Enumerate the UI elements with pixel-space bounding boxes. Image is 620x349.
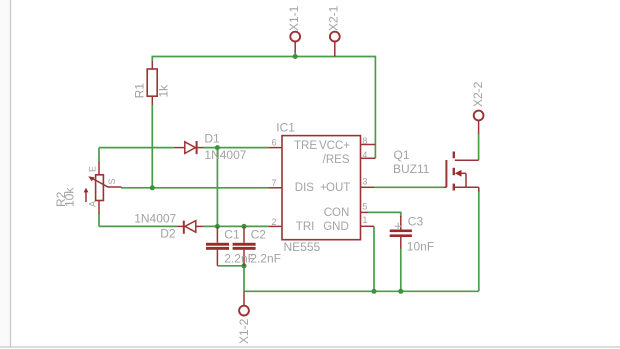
svg-text:1k: 1k xyxy=(157,84,171,98)
svg-text:A: A xyxy=(87,201,97,207)
svg-text:5: 5 xyxy=(362,201,367,211)
svg-text:8: 8 xyxy=(362,136,367,146)
svg-text:1N4007: 1N4007 xyxy=(134,212,176,226)
svg-text:NE555: NE555 xyxy=(284,240,321,254)
svg-text:/RES: /RES xyxy=(323,154,350,166)
svg-text:CON: CON xyxy=(324,207,350,219)
svg-text:E: E xyxy=(87,166,97,172)
svg-text:6: 6 xyxy=(271,137,276,147)
svg-text:R1: R1 xyxy=(133,83,147,99)
svg-text:D2: D2 xyxy=(160,226,176,240)
svg-text:GND: GND xyxy=(323,221,349,233)
svg-text:DIS: DIS xyxy=(295,182,315,194)
svg-text:2.2nF: 2.2nF xyxy=(250,251,281,265)
svg-text:C2: C2 xyxy=(251,227,267,241)
svg-text:1: 1 xyxy=(362,215,367,225)
svg-text:X2-2: X2-2 xyxy=(471,81,485,107)
svg-text:X1-1: X1-1 xyxy=(287,5,301,31)
svg-text:X2-1: X2-1 xyxy=(327,5,341,31)
svg-text:C3: C3 xyxy=(408,214,424,228)
svg-text:3: 3 xyxy=(362,176,367,186)
svg-text:7: 7 xyxy=(271,178,276,188)
svg-text:Q1: Q1 xyxy=(394,148,410,162)
svg-text:X1-2: X1-2 xyxy=(237,318,251,344)
svg-text:BUZ11: BUZ11 xyxy=(393,162,430,176)
svg-text:10k: 10k xyxy=(62,187,76,207)
svg-text:10nF: 10nF xyxy=(407,240,434,254)
svg-text:2: 2 xyxy=(271,217,276,227)
svg-text:1N4007: 1N4007 xyxy=(204,148,246,162)
svg-text:OUT: OUT xyxy=(326,182,350,194)
svg-text:S: S xyxy=(107,178,117,184)
svg-text:4: 4 xyxy=(362,150,367,160)
svg-text:D1: D1 xyxy=(204,131,220,145)
svg-text:IC1: IC1 xyxy=(276,120,295,134)
svg-text:TRI: TRI xyxy=(296,221,315,233)
svg-text:TRE: TRE xyxy=(294,140,317,152)
svg-text:VCC+: VCC+ xyxy=(319,140,350,152)
svg-text:C1: C1 xyxy=(224,227,240,241)
